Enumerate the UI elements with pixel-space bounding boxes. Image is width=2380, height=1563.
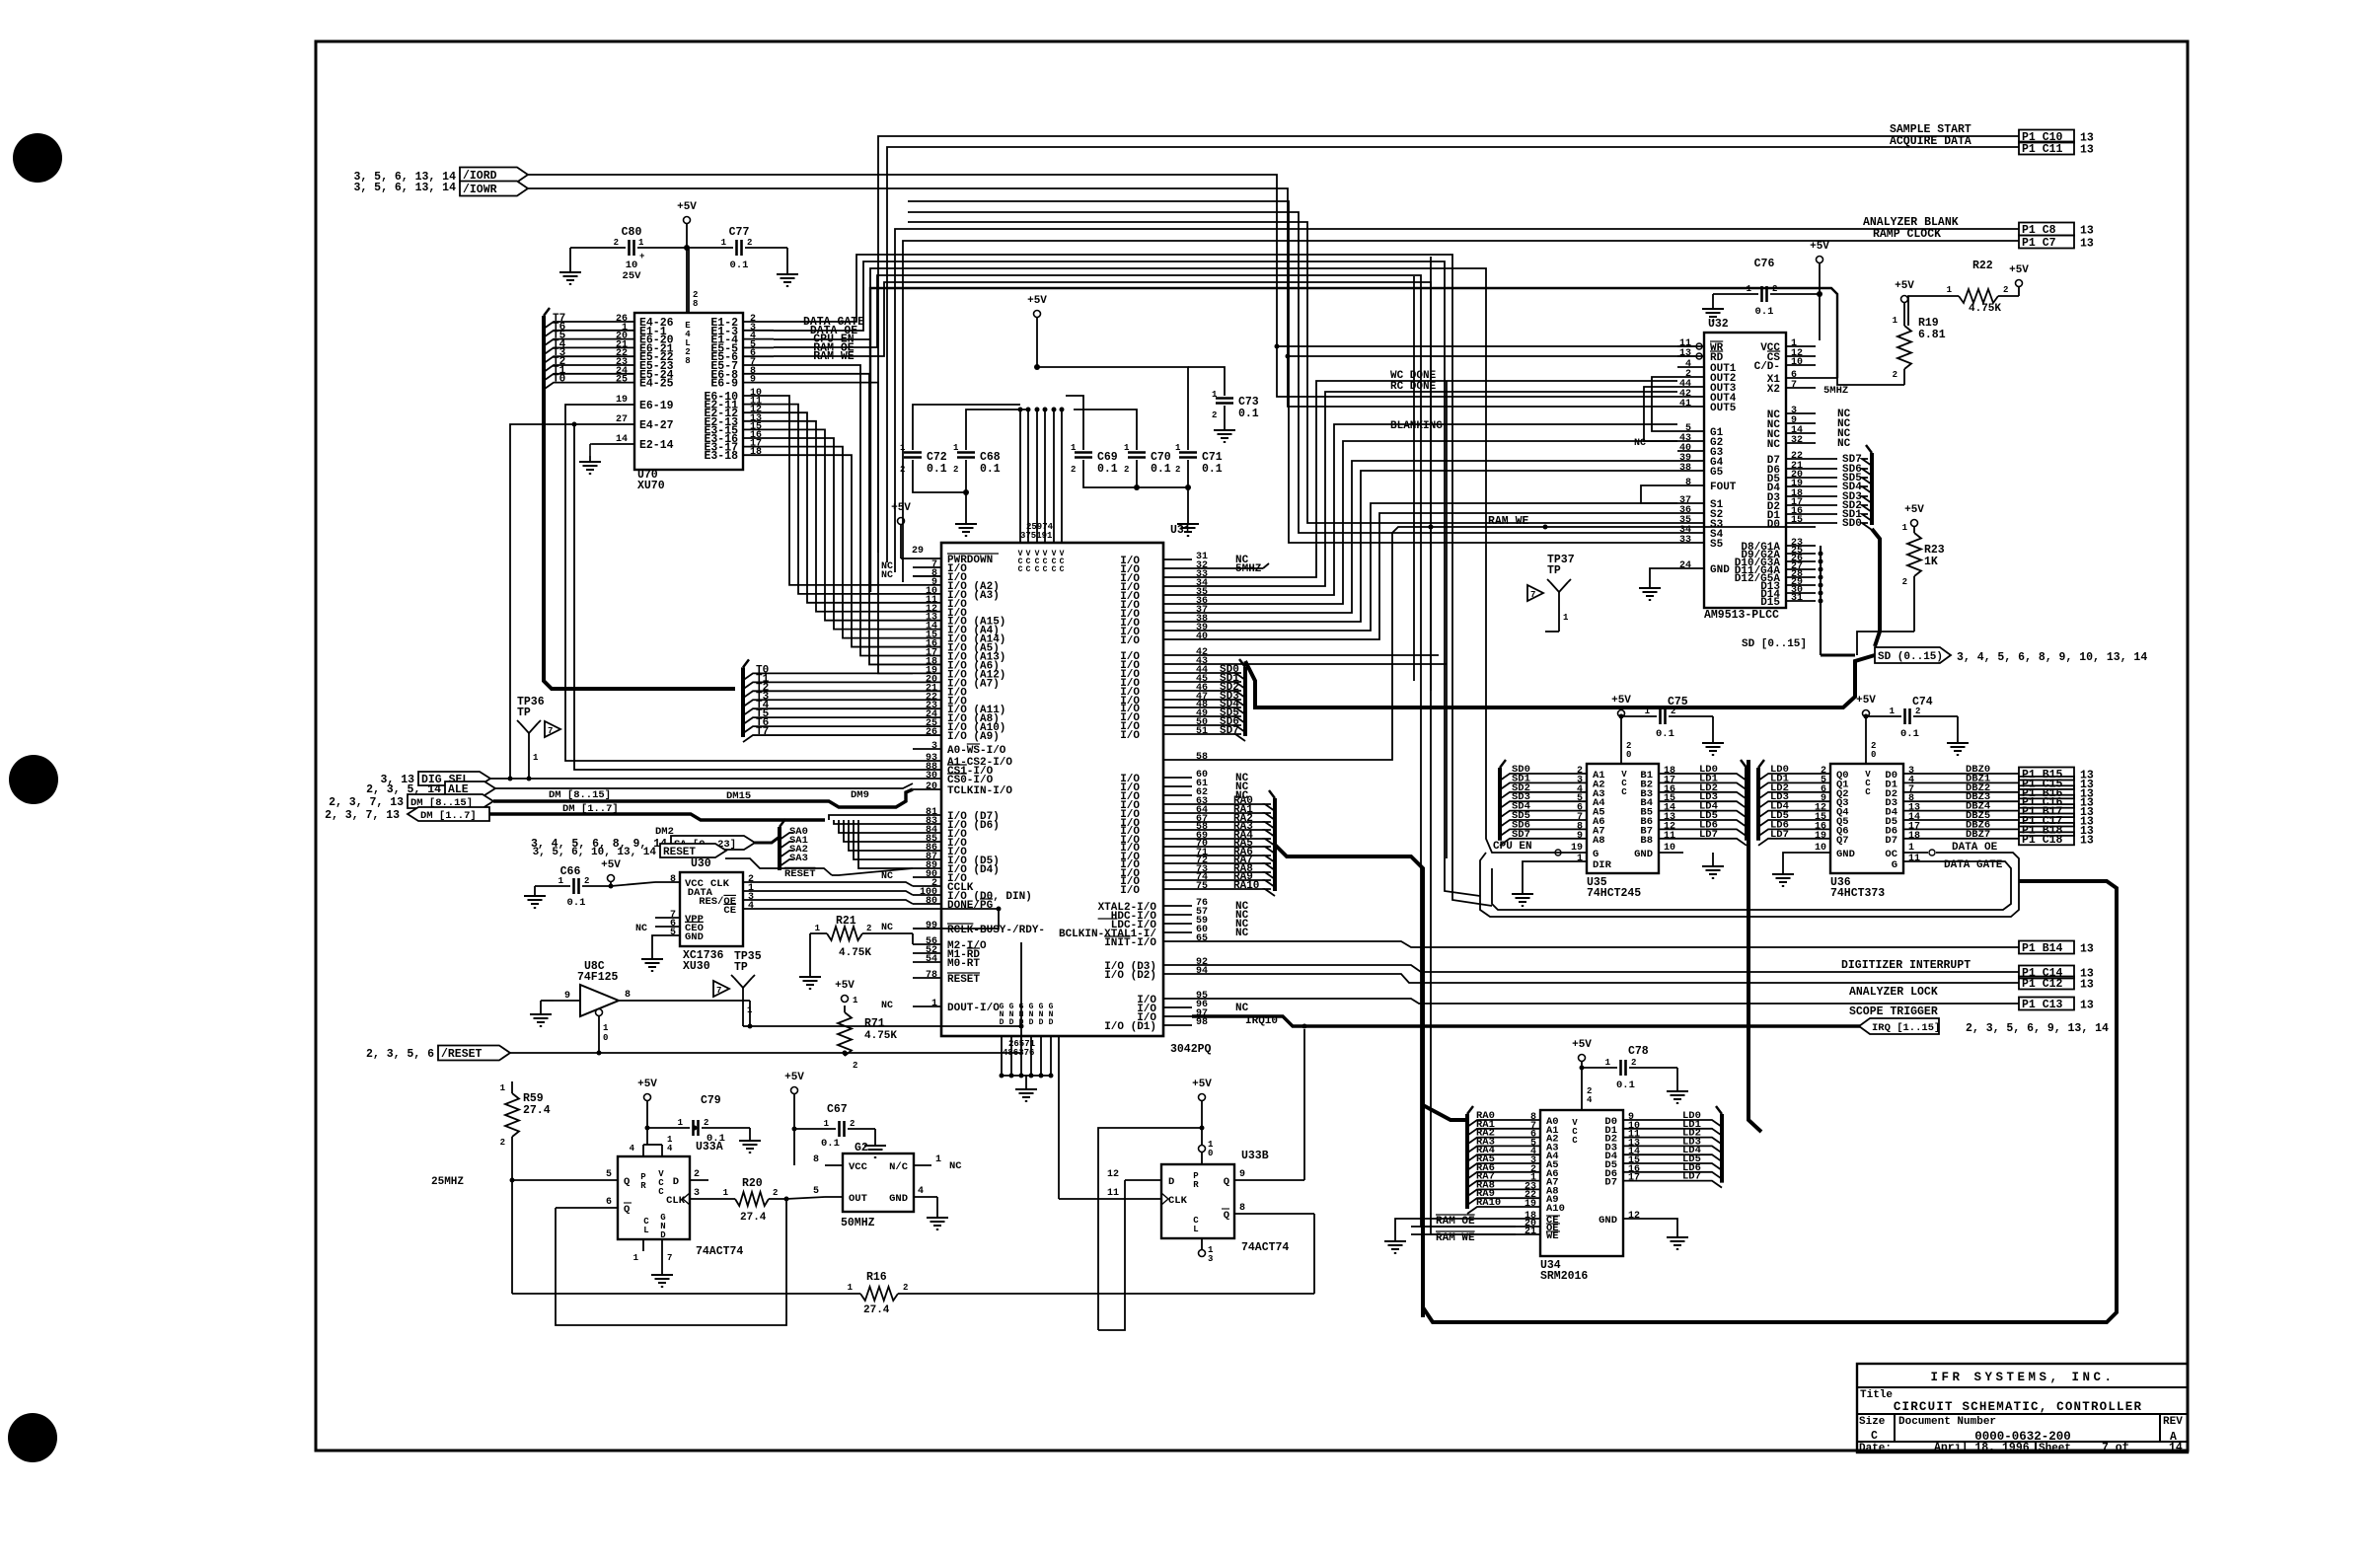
svg-text:IFR SYSTEMS, INC.: IFR SYSTEMS, INC.	[1930, 1371, 2115, 1384]
svg-text:+5V: +5V	[637, 1079, 657, 1090]
wire U30 DATA to DIN	[768, 891, 913, 895]
wire U32 FOUT loop	[1641, 485, 1677, 503]
svg-text:1: 1	[633, 1253, 639, 1263]
resistor R71	[838, 996, 897, 1071]
svg-text:65: 65	[1196, 933, 1208, 944]
svg-text:DM15: DM15	[726, 790, 751, 802]
wire U32 OUT3 to G2	[1644, 387, 1677, 441]
svg-text:P1 B14: P1 B14	[2022, 942, 2063, 955]
svg-text:U32: U32	[1708, 318, 1729, 331]
capacitor C69	[1071, 443, 1118, 476]
svg-text:2: 2	[614, 238, 619, 248]
svg-text:A8: A8	[1593, 835, 1605, 847]
power +5V above U31 caps	[1027, 295, 1047, 370]
label SAMPLE START	[1890, 123, 1971, 136]
wire SA bus	[754, 837, 780, 843]
label 25MHZ	[431, 1176, 515, 1188]
svg-text:54: 54	[926, 954, 937, 965]
wire 50MHZ to G2	[784, 1197, 826, 1202]
svg-text:0.1: 0.1	[1755, 306, 1774, 318]
wire DIGITIZER INTERRUPT	[1192, 965, 2019, 972]
svg-text:C: C	[1035, 565, 1040, 574]
svg-text:NC: NC	[1837, 438, 1851, 450]
ground at U30 GND	[641, 935, 663, 971]
test point TP37	[1527, 554, 1575, 632]
svg-text:2: 2	[704, 1118, 708, 1128]
label CPU EN at U35	[1493, 841, 1532, 853]
svg-text:E4-25: E4-25	[639, 378, 674, 391]
wire staircase U70 to U31	[774, 365, 913, 673]
svg-text:19: 19	[616, 395, 628, 406]
svg-text:GND: GND	[889, 1193, 908, 1205]
svg-text:27: 27	[616, 414, 628, 425]
svg-text:SD0: SD0	[1842, 518, 1862, 530]
resistor R23	[1857, 523, 1945, 655]
wire column D	[1058, 1036, 1060, 1199]
svg-text:P1 C7: P1 C7	[2022, 237, 2056, 250]
connector P1 B16	[2019, 785, 2094, 800]
svg-text:2: 2	[903, 1283, 908, 1293]
svg-text:NC: NC	[881, 871, 893, 882]
buffer U8C 74F125	[554, 960, 750, 1053]
svg-text:+5V: +5V	[2009, 264, 2029, 276]
svg-text:13: 13	[2080, 834, 2094, 847]
svg-text:1: 1	[1645, 707, 1651, 716]
svg-text:4.75K: 4.75K	[1969, 303, 2001, 315]
svg-text:2: 2	[500, 1138, 505, 1148]
svg-text:2, 3, 7, 13: 2, 3, 7, 13	[329, 796, 404, 809]
svg-text:1: 1	[723, 1188, 729, 1198]
capacitor C71	[1175, 443, 1223, 476]
wire E4-27 net	[508, 422, 914, 781]
svg-text:+5V: +5V	[677, 201, 697, 213]
wire /RESET net	[510, 978, 1024, 1056]
svg-text:Q: Q	[624, 1204, 630, 1216]
svg-text:G2: G2	[855, 1142, 868, 1154]
svg-text:2: 2	[584, 876, 589, 886]
svg-text:CPU EN: CPU EN	[1493, 841, 1532, 853]
svg-text:99: 99	[926, 921, 937, 931]
bus wedge T0-T7 into U31	[743, 659, 913, 742]
svg-text:M0-RT: M0-RT	[947, 958, 980, 970]
bus wedge T0-T7 into U70	[544, 308, 607, 390]
svg-text:NC: NC	[949, 1160, 962, 1172]
svg-text:C79: C79	[701, 1094, 721, 1107]
wire U30 RES to DONE	[768, 900, 913, 904]
svg-text:1: 1	[1747, 284, 1752, 294]
wire U31 to U32 S1 net	[1192, 503, 1677, 631]
svg-text:+5V: +5V	[1810, 241, 1829, 253]
net arrow SA[0..23]	[531, 836, 755, 851]
IC U70 XU70	[592, 249, 774, 492]
svg-text:1: 1	[1577, 854, 1583, 864]
wire ANALYZER LOCK	[1192, 974, 2019, 983]
net arrow DM[1..7]	[325, 807, 489, 822]
svg-text:27.4: 27.4	[863, 1304, 890, 1316]
svg-text:GND: GND	[1634, 849, 1653, 860]
ground at U32 GND pin	[1639, 568, 1677, 600]
connector P1 C15	[2019, 777, 2094, 791]
svg-text:RAM WE: RAM WE	[1488, 515, 1529, 528]
capacitor C77	[687, 226, 798, 286]
svg-text:Title: Title	[1860, 1389, 1893, 1401]
svg-text:80: 80	[926, 896, 937, 907]
svg-text:375191: 375191	[1020, 531, 1053, 541]
svg-text:+5V: +5V	[601, 859, 621, 871]
bus RA main	[1275, 845, 1467, 1317]
label RAM WE at U34	[1436, 1231, 1475, 1244]
svg-text:0.1: 0.1	[1238, 408, 1259, 420]
svg-text:D7: D7	[1604, 1177, 1617, 1189]
wire U33B D loop	[1098, 1128, 1202, 1330]
svg-text:1: 1	[1893, 316, 1898, 326]
svg-text:X2: X2	[1767, 384, 1780, 396]
svg-text:WE: WE	[1546, 1230, 1559, 1242]
svg-text:0.1: 0.1	[927, 463, 947, 476]
net arrow /IORD	[353, 168, 528, 185]
svg-text:G5: G5	[1710, 467, 1724, 479]
svg-text:L: L	[643, 1226, 648, 1235]
svg-text:C: C	[1060, 565, 1065, 574]
svg-text:TCLKIN-I/O: TCLKIN-I/O	[947, 785, 1012, 797]
svg-text:+5V: +5V	[891, 502, 911, 514]
wire INIT row	[1192, 941, 2019, 947]
label DATA GATE at U36	[1944, 859, 2003, 871]
svg-text:NC: NC	[881, 1001, 893, 1011]
net arrow DIG SEL	[380, 772, 490, 786]
svg-text:0: 0	[1208, 1149, 1213, 1158]
net arrow DM[8..15]	[329, 794, 493, 809]
svg-text:4: 4	[748, 901, 754, 912]
svg-text:1: 1	[1947, 285, 1953, 295]
wire U31 pin 42 net	[1192, 654, 1439, 656]
svg-text:DM [1..7]: DM [1..7]	[562, 803, 619, 815]
wire 5MHZ from U31	[1192, 563, 1269, 568]
U31 VCC pin bus	[1018, 408, 1065, 544]
bus wedge RA into U34	[1467, 1106, 1516, 1214]
svg-text:8: 8	[685, 356, 690, 366]
wire U31 to U32 G5 net	[1192, 471, 1677, 622]
svg-text:4: 4	[918, 1186, 924, 1197]
power +5V at U35	[1611, 695, 1631, 738]
svg-text:1: 1	[824, 1119, 830, 1129]
svg-text:2: 2	[1071, 465, 1076, 475]
svg-text:7: 7	[1530, 590, 1535, 600]
wire U30 CE net	[768, 907, 1002, 930]
svg-text:XU30: XU30	[683, 960, 710, 973]
capacitor C72-C68 wiring	[913, 405, 1028, 536]
svg-text:2, 3, 5, 6, 9, 13, 14: 2, 3, 5, 6, 9, 13, 14	[1966, 1022, 2109, 1035]
svg-text:3042PQ: 3042PQ	[1170, 1043, 1212, 1056]
wire U33A feedback loop	[556, 1199, 786, 1325]
svg-text:2, 3, 5, 6: 2, 3, 5, 6	[366, 1048, 434, 1061]
svg-text:FOUT: FOUT	[1710, 482, 1737, 493]
wire ANALYZER BLANK	[895, 229, 2019, 572]
svg-text:B8: B8	[1640, 835, 1653, 847]
wire RAM OE into U34	[1411, 1226, 1516, 1228]
svg-text:13: 13	[2080, 943, 2094, 956]
svg-text:CLK: CLK	[1168, 1195, 1188, 1207]
resistor R20	[708, 1177, 786, 1224]
svg-text:T0: T0	[553, 374, 565, 386]
svg-text:10: 10	[1664, 843, 1675, 854]
svg-text:I/O: I/O	[1120, 730, 1140, 742]
svg-text:1: 1	[500, 1083, 506, 1093]
svg-text:C: C	[1871, 1430, 1878, 1443]
svg-text:GND: GND	[1599, 1215, 1617, 1227]
svg-text:3: 3	[1208, 1254, 1213, 1264]
svg-text:OUT5: OUT5	[1710, 403, 1737, 414]
wire DATA OE loop	[1480, 853, 2019, 917]
wire U31 to U32 G2 net	[1192, 441, 1677, 604]
svg-text:33: 33	[1679, 535, 1691, 546]
svg-text:DM9: DM9	[851, 789, 869, 801]
power +5V above U70	[677, 201, 697, 313]
capacitor C74	[1866, 696, 1969, 755]
svg-text:C67: C67	[827, 1103, 848, 1116]
label RAM OE at U34	[1436, 1215, 1475, 1228]
wire U30 CLK to CCLK	[768, 882, 913, 886]
svg-text:4: 4	[630, 1144, 635, 1154]
U70 output net labels	[803, 316, 864, 363]
capacitor C67	[794, 1103, 886, 1157]
bus wedge SD at U32	[1862, 445, 1872, 530]
svg-text:19: 19	[1815, 831, 1826, 842]
svg-text:14: 14	[2169, 1442, 2183, 1454]
svg-text:RESET: RESET	[947, 974, 980, 986]
svg-text:98: 98	[1196, 1017, 1208, 1028]
svg-text:19: 19	[1571, 843, 1583, 854]
label RC DONE	[1390, 381, 1437, 393]
svg-text:3, 4, 5, 6, 8, 9, 10, 13, 14: 3, 4, 5, 6, 8, 9, 10, 13, 14	[1957, 651, 2147, 664]
svg-text:L: L	[1193, 1225, 1198, 1234]
ground at U35 DIR	[1512, 861, 1562, 906]
wire R21 to M2	[912, 933, 914, 944]
svg-text:I/O (A9): I/O (A9)	[947, 731, 1000, 743]
U31 right pins NC block	[1120, 552, 1262, 647]
ground at U35 GND	[1702, 853, 1724, 878]
svg-text:4: 4	[667, 1144, 673, 1154]
test point TP35	[713, 942, 1021, 1029]
svg-text:TP: TP	[1547, 564, 1561, 577]
svg-text:+5V: +5V	[1611, 695, 1631, 707]
svg-text:25V: 25V	[623, 270, 642, 282]
svg-text:Q: Q	[1224, 1210, 1229, 1222]
svg-text:Date:: Date:	[1859, 1443, 1892, 1454]
svg-text:0.1: 0.1	[567, 897, 586, 909]
svg-text:9: 9	[1577, 831, 1583, 842]
punch hole top-left	[13, 133, 62, 183]
U36 DBZ outputs	[1928, 764, 2019, 841]
label ACQUIRE DATA	[1890, 135, 1971, 148]
svg-text:INIT-I/O: INIT-I/O	[1104, 937, 1156, 949]
svg-text:13: 13	[2080, 238, 2094, 251]
svg-text:4: 4	[1587, 1095, 1593, 1105]
svg-text:19: 19	[1525, 1199, 1536, 1210]
power +5V at U31 PWRDOWN	[891, 502, 916, 558]
svg-text:Size: Size	[1859, 1416, 1886, 1428]
ground at U8C input	[530, 1001, 554, 1026]
bus arrow IRQ (1..15)	[1859, 1018, 2109, 1035]
svg-text:13: 13	[1679, 348, 1691, 359]
svg-text:2: 2	[1772, 284, 1777, 294]
wire column B	[1430, 257, 1432, 691]
bus DM[1..7]	[489, 803, 825, 838]
bus DM[8..15]	[493, 789, 913, 807]
svg-text:+5V: +5V	[1895, 280, 1914, 292]
power +5V at U30	[601, 859, 621, 886]
svg-text:TP: TP	[517, 707, 531, 719]
connector P1 C17	[2019, 814, 2094, 829]
connector P1 C12	[2019, 977, 2094, 992]
svg-text:D: D	[1168, 1176, 1174, 1188]
svg-text:0.1: 0.1	[1616, 1079, 1635, 1091]
wire SCOPE TRIGGER	[1192, 999, 2019, 1004]
svg-text:1: 1	[558, 876, 564, 886]
svg-text:2: 2	[1902, 577, 1907, 587]
svg-text:NC: NC	[881, 923, 893, 933]
svg-text:I/O (D2): I/O (D2)	[1104, 970, 1156, 982]
wire DATA OE net	[774, 261, 1480, 896]
svg-text:GND: GND	[1836, 849, 1855, 860]
svg-text:Document Number: Document Number	[1898, 1416, 1996, 1428]
wire RAM WE into U34	[1411, 1233, 1516, 1235]
svg-text:E3-18: E3-18	[704, 450, 738, 463]
svg-text:12: 12	[1107, 1169, 1119, 1180]
svg-text:0.1: 0.1	[980, 463, 1001, 476]
svg-text:G: G	[1892, 859, 1897, 871]
bus wire SD from U32	[1821, 529, 1880, 655]
svg-text:74ACT74: 74ACT74	[696, 1245, 743, 1258]
svg-text:R20: R20	[742, 1177, 763, 1190]
label 5MHZ at X1	[1823, 385, 1848, 397]
svg-text:ANALYZER LOCK: ANALYZER LOCK	[1849, 986, 1938, 999]
svg-text:+5V: +5V	[1027, 295, 1047, 307]
svg-text:1: 1	[1605, 1058, 1611, 1068]
svg-text:1: 1	[721, 238, 727, 248]
svg-text:20: 20	[926, 781, 937, 792]
net arrow /RESET	[366, 1046, 510, 1062]
svg-text:31: 31	[1791, 593, 1803, 604]
svg-text:U33A: U33A	[696, 1141, 723, 1154]
svg-text:74F125: 74F125	[577, 971, 619, 984]
svg-text:3: 3	[931, 741, 937, 752]
svg-text:8: 8	[625, 990, 631, 1001]
label ANALYZER LOCK	[1849, 986, 1938, 999]
capacitor C79	[647, 1094, 761, 1153]
connector P1 C11	[2019, 142, 2094, 157]
svg-text:I/O (D1): I/O (D1)	[1104, 1021, 1156, 1033]
capacitor C69-C71 wiring	[1037, 367, 1199, 536]
svg-text:LD7: LD7	[1682, 1171, 1701, 1183]
svg-text:0.1: 0.1	[730, 260, 749, 271]
svg-text:R16: R16	[866, 1271, 887, 1284]
svg-text:51: 51	[1196, 726, 1208, 737]
svg-text:2: 2	[1631, 1058, 1636, 1068]
IC U32 AM9513-PLCC	[1634, 318, 1862, 622]
svg-text:R: R	[640, 1181, 646, 1191]
resistor R21	[799, 915, 913, 989]
label RAMP CLOCK	[1873, 228, 1941, 241]
svg-text:2: 2	[1671, 707, 1675, 716]
wire U33B Q to IRQ row	[1303, 1029, 1305, 1180]
capacitor C70	[1124, 443, 1171, 476]
power +5V at U36	[1856, 695, 1876, 738]
svg-text:2: 2	[1175, 465, 1180, 475]
svg-text:BLANKING: BLANKING	[1390, 420, 1443, 432]
svg-text:1: 1	[533, 753, 539, 763]
svg-text:I/O: I/O	[1120, 635, 1140, 647]
svg-text:P1 C11: P1 C11	[2022, 143, 2063, 156]
connector P1 C16	[2019, 795, 2094, 810]
wire CPU EN	[1486, 345, 1562, 853]
connector P1 B15	[2019, 768, 2094, 782]
svg-text:Q: Q	[1224, 1176, 1229, 1188]
svg-text:2: 2	[1124, 465, 1129, 475]
svg-text:C: C	[1621, 787, 1627, 797]
capacitor C75	[1621, 696, 1724, 755]
svg-text:Q: Q	[624, 1176, 630, 1188]
svg-text:T7: T7	[756, 726, 769, 738]
wire CPU EN net	[774, 268, 1486, 345]
capacitor C78	[1582, 1045, 1688, 1103]
svg-text:+5V: +5V	[1192, 1079, 1212, 1090]
wire U31 to U32 G4 net	[1192, 461, 1677, 613]
power +5V at R23	[1904, 504, 1924, 527]
svg-text:TP: TP	[734, 961, 748, 974]
svg-text:DM [8..15]: DM [8..15]	[549, 789, 611, 801]
wire DATA GATE net	[774, 255, 1492, 906]
bus wedge LD into U36	[1758, 760, 1806, 846]
svg-text:RA10: RA10	[1233, 880, 1259, 892]
svg-text:0: 0	[603, 1033, 608, 1043]
svg-text:D7: D7	[1885, 835, 1897, 847]
svg-text:78: 78	[926, 970, 937, 981]
svg-text:13: 13	[2080, 225, 2094, 238]
svg-text:DIR: DIR	[1593, 859, 1612, 871]
svg-text:1: 1	[1908, 843, 1914, 854]
svg-text:U33B: U33B	[1241, 1150, 1269, 1162]
svg-text:4.75K: 4.75K	[864, 1030, 897, 1042]
svg-text:C: C	[1865, 787, 1871, 797]
wire BLANKING	[1192, 424, 1677, 595]
wire U32 OUT2 to G1	[1652, 377, 1677, 431]
svg-text:+5V: +5V	[1904, 504, 1924, 516]
svg-text:8: 8	[693, 299, 698, 309]
svg-text:C: C	[1572, 1136, 1578, 1146]
label WC DONE	[1390, 370, 1437, 382]
wire RAM WE run	[1192, 525, 1816, 761]
wire U34 CE ground	[1384, 1219, 1516, 1253]
svg-text:11: 11	[1908, 854, 1920, 864]
svg-text:2: 2	[850, 1119, 855, 1129]
svg-text:9: 9	[1239, 1169, 1245, 1180]
wire SAMPLE START	[878, 136, 2019, 553]
svg-text:NC: NC	[1235, 1003, 1249, 1014]
wire R59 to R16	[511, 1180, 513, 1294]
svg-text:SD [0..15]: SD [0..15]	[1742, 638, 1807, 650]
svg-text:+5V: +5V	[1856, 695, 1876, 707]
U31 right xtal pins	[1059, 898, 1278, 1033]
svg-text:7: 7	[1791, 380, 1797, 391]
svg-text:LD7: LD7	[1699, 829, 1718, 841]
svg-text:XU70: XU70	[637, 480, 665, 492]
svg-text:27.4: 27.4	[523, 1104, 551, 1117]
wire ALE	[495, 783, 913, 788]
svg-text:25: 25	[616, 375, 628, 386]
oscillator G2 50MHZ	[813, 1142, 962, 1229]
svg-text:41: 41	[1679, 399, 1691, 409]
